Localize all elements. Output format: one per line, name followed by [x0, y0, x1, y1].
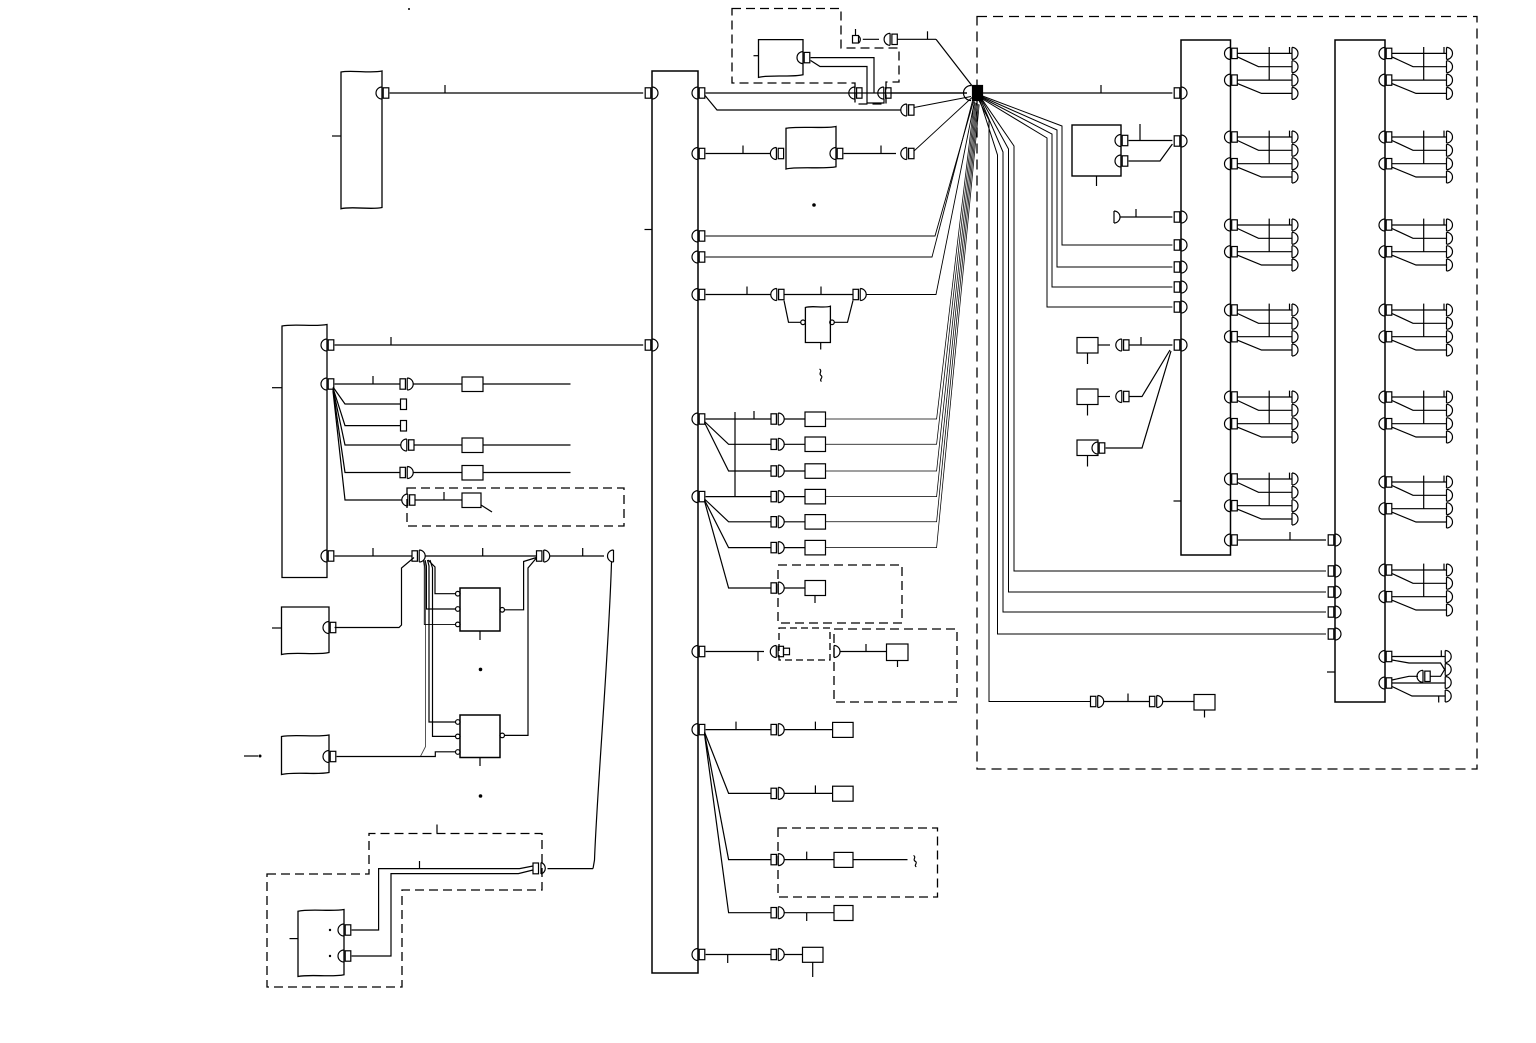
- connector on tall box right edge (bottom): [321, 550, 334, 562]
- inline pair: [771, 491, 784, 503]
- wire tick: [390, 337, 392, 345]
- fuse box: [805, 464, 826, 479]
- wire: [706, 294, 771, 296]
- long wire P2 down to M2 output: [505, 559, 537, 736]
- inline pair 2: [1150, 696, 1163, 708]
- connector into DB1 row 141: [1174, 135, 1187, 147]
- terminal 2: [1445, 664, 1451, 676]
- M1 bottom stub: [479, 631, 481, 640]
- branch row 859.6: [705, 733, 772, 860]
- dot below M2: [479, 794, 483, 798]
- wire to squiggle: [853, 859, 908, 861]
- stepped dashed enclosure: [267, 834, 542, 988]
- SB3 stub: [1087, 456, 1089, 467]
- connector bus right y=236: [692, 230, 705, 242]
- inline pair: [1116, 391, 1129, 403]
- branch row 521.8: [705, 499, 772, 522]
- connector into DB2 row 634: [1328, 628, 1341, 640]
- component stub: [897, 661, 899, 668]
- wire pair P1 down to M2 input2: [430, 560, 456, 736]
- lamp group DB2-5: [1379, 391, 1453, 443]
- connector bus right y=153.5: [692, 148, 705, 160]
- wire: [785, 954, 803, 956]
- fuse box: [805, 540, 826, 555]
- wire from B4 upper connector: [352, 866, 533, 930]
- connector into DB2 row 571: [1328, 565, 1341, 577]
- connector on B2 right edge: [323, 622, 336, 634]
- wire: [483, 444, 571, 446]
- M1 input pin 2: [456, 607, 461, 612]
- connector bus right y=294.5: [692, 289, 705, 301]
- connector on tall box right edge: [321, 378, 334, 390]
- wire lower connector to terminal 3: [1392, 682, 1445, 684]
- connector bus right y=496.6: [692, 491, 705, 503]
- wire pair P1 to M1 input3: [424, 561, 456, 625]
- wire tick: [735, 722, 737, 730]
- row 954 wire: [706, 954, 771, 956]
- wire pair P1 to M1 input2: [425, 560, 456, 609]
- connector on B3 right edge: [323, 751, 336, 763]
- wire tick: [444, 85, 446, 93]
- connector bus right y=419: [692, 413, 705, 425]
- inline pair: [1417, 670, 1430, 682]
- drop to hanging component left: [784, 301, 801, 323]
- wire DB1 to DB2: [1238, 539, 1326, 541]
- pair before component: [770, 148, 783, 160]
- fuse box: [805, 412, 826, 427]
- wire row 93 to junction: [706, 92, 967, 94]
- wire to pair: [863, 38, 879, 40]
- tick on its left edge: [332, 135, 341, 137]
- row 729 wire: [706, 729, 771, 731]
- component stub: [820, 343, 822, 350]
- tick on harness wire above dashed edge: [436, 825, 438, 834]
- junction fan: feeder to rect2 row 612: [981, 101, 1326, 613]
- wire tick: [727, 955, 729, 964]
- connector into DB1 row 217: [1174, 211, 1187, 223]
- inline pair: [1116, 339, 1129, 351]
- large dashed enclosure D10: [977, 17, 1477, 770]
- tall component box (wavy top): [282, 325, 327, 578]
- wire to junction bundle: [826, 104, 978, 497]
- M1 input pin 1: [456, 591, 461, 596]
- inline pair: [771, 907, 784, 919]
- inline pair: [771, 949, 784, 961]
- inline connector pair: [400, 378, 413, 390]
- terminal rect: [401, 421, 407, 432]
- connector on SB3 right edge: [1092, 442, 1105, 454]
- dashed enclosure D4: [778, 565, 902, 623]
- relay stub: [814, 596, 816, 604]
- wire tick: [880, 146, 882, 154]
- dot between modules: [479, 668, 483, 672]
- inline connector pair: [401, 439, 414, 451]
- terminal 1: [1445, 651, 1451, 663]
- wire: [414, 383, 463, 385]
- wire: [483, 383, 571, 385]
- wire pair to terminal 2 (crossing): [1430, 669, 1445, 677]
- inline pair: [771, 465, 784, 477]
- hanging component pin R: [830, 320, 835, 325]
- squiggle continuation mark: [820, 369, 822, 382]
- splice flare on wire from B3: [337, 752, 456, 757]
- wire slant up to DB1 connector: [1129, 350, 1170, 397]
- wire to junction bundle: [826, 102, 975, 419]
- dashed enclosure D3: [407, 488, 624, 526]
- SB2 stub: [1087, 405, 1089, 416]
- tick on B4 left edge: [290, 938, 299, 940]
- wire row110 slant to junction: [914, 97, 971, 108]
- tick left of B3 dot: [244, 755, 258, 757]
- fuse box: [805, 489, 826, 504]
- connector into DB2 row 540: [1328, 534, 1341, 546]
- relay module M2: [460, 715, 500, 758]
- lamp group DB1-5: [1225, 391, 1299, 443]
- branch row 793.4: [705, 732, 772, 793]
- inline pair: [771, 724, 784, 736]
- connector at bus left edge: [645, 339, 658, 351]
- wire: [785, 496, 806, 498]
- lamp group DB2-4: [1379, 304, 1453, 356]
- wire row 1: [335, 383, 400, 385]
- distribution block DB1: [1181, 40, 1231, 555]
- fuse box: [462, 466, 483, 481]
- small box SB3: [1077, 440, 1098, 456]
- wire row 236: [706, 101, 974, 236]
- dashed enclosure D6: [834, 629, 957, 702]
- connector bus right y=93: [692, 87, 705, 99]
- wire: [706, 651, 764, 653]
- relay module M1: [460, 588, 500, 631]
- M2 bottom stub: [479, 758, 481, 767]
- wire tick: [443, 492, 445, 500]
- DB2 left edge tick: [1327, 671, 1335, 673]
- drop to hanging component right: [834, 301, 853, 323]
- inline connector pair: [400, 467, 413, 479]
- wire: [785, 729, 833, 731]
- hanging component pin L: [801, 320, 806, 325]
- wire tick: [814, 785, 816, 793]
- inline pair row110: [901, 104, 914, 116]
- wire from lower connector slanting up: [1129, 144, 1173, 161]
- junction connector arc: [964, 86, 971, 101]
- connector on its right edge: [797, 52, 810, 64]
- wire to DB1 row 345: [1129, 344, 1172, 346]
- wire tick: [1139, 124, 1141, 140]
- component box B2 (wavy bottom): [282, 607, 330, 655]
- wire upper connector routed to terminal 2: [1392, 660, 1445, 671]
- wire: [550, 555, 604, 557]
- wire: [335, 555, 412, 557]
- lamp group DB1-6: [1225, 473, 1299, 525]
- wire: [415, 499, 462, 501]
- M1 output pin: [500, 608, 505, 613]
- wire branch 2: [333, 387, 401, 404]
- small connector stub: [855, 29, 857, 36]
- wire path A down to row 93 pair: [811, 58, 874, 93]
- wire tick: [372, 548, 374, 556]
- wire: [785, 547, 806, 549]
- connector into DB2 row 592: [1328, 586, 1341, 598]
- squiggle end mark: [914, 856, 917, 867]
- wire lower connector to terminal 4: [1392, 687, 1445, 697]
- inline pair: [853, 289, 866, 301]
- connector bus right y=257: [692, 251, 705, 263]
- M2 input pin 1: [456, 720, 461, 725]
- wire tick: [1127, 694, 1129, 702]
- inline pair row 39: [884, 33, 897, 45]
- junction fan: feeder to rect1 row 245: [983, 96, 1173, 245]
- wire from B4 lower connector: [352, 870, 533, 956]
- relay box in dashed enclosure: [462, 493, 481, 508]
- wire tick: [927, 31, 929, 39]
- terminal 3: [1445, 677, 1451, 689]
- component box: [803, 947, 824, 962]
- small connector top: [853, 36, 859, 44]
- connector on its right edge: [376, 87, 389, 99]
- lamp group DB2-1: [1379, 47, 1453, 99]
- stepped dashed enclosure D1/D2: [732, 9, 899, 105]
- inline pair: [771, 516, 784, 528]
- wire tick: [1140, 337, 1142, 345]
- wire: [426, 555, 537, 557]
- connector bus right y=954.5: [692, 949, 705, 961]
- wire tick: [482, 548, 484, 556]
- junction fan: feeder to rect1 row 287: [983, 98, 1173, 287]
- wire tick: [742, 146, 744, 154]
- junction connector body (filled): [973, 86, 983, 101]
- lamp group DB2-8 (special with inline connector): [1379, 650, 1451, 702]
- inline pair: [771, 854, 784, 866]
- bottom feeder row: inline pair 1: [1091, 696, 1104, 708]
- small box SB2: [1077, 389, 1098, 405]
- inline pair: [771, 438, 784, 450]
- wire tick: [753, 411, 755, 419]
- small box SB1: [1077, 338, 1098, 354]
- wire pair2 to junction: [891, 92, 967, 94]
- wire: [785, 912, 835, 914]
- wire pair P1 down to splice on B3 wire: [421, 561, 426, 756]
- inline connector pair: [402, 494, 415, 506]
- terminal 4: [1445, 690, 1451, 702]
- wire to terminal 1: [1392, 656, 1445, 658]
- wire: [785, 418, 806, 420]
- terminal half-disc: [608, 550, 614, 562]
- component box (wavy) top-left: [341, 71, 382, 209]
- fuse box: [462, 438, 483, 453]
- control unit stub: [1096, 176, 1098, 186]
- wire: [785, 792, 833, 794]
- fuse box: [805, 515, 826, 530]
- branch row 471: [705, 423, 772, 472]
- hanging component box (wavy top): [805, 306, 830, 342]
- wire slant to junction: [914, 98, 972, 152]
- wire: [844, 153, 896, 155]
- comb vertical: [734, 412, 736, 497]
- wire: [785, 470, 806, 472]
- wire path B step down: [811, 61, 884, 104]
- junction fan: feeder to rect2 row 571: [983, 100, 1327, 571]
- pair on row 93 (first): [849, 87, 862, 99]
- lamp group DB1-4: [1225, 304, 1299, 356]
- wire: [414, 444, 462, 446]
- wire: [785, 521, 806, 523]
- wire tick: [820, 287, 822, 295]
- lamp group DB2-6: [1379, 476, 1453, 528]
- dashed enclosure D7: [778, 828, 938, 897]
- wire tick: [372, 376, 374, 384]
- branch row 444: [705, 422, 772, 445]
- component stub: [812, 962, 814, 977]
- wire slant down to junction: [936, 39, 973, 87]
- tick above terminal 1: [1440, 650, 1442, 656]
- end box: [1194, 695, 1215, 711]
- M2 input pin 2: [456, 734, 461, 739]
- M1 input pin 3: [456, 622, 461, 627]
- connector into DB1 row 345: [1174, 339, 1187, 351]
- pair at harness exit: [533, 863, 539, 874]
- wire slant up to DB1 connector: [1106, 351, 1171, 448]
- branch wire row 110: [705, 96, 901, 111]
- DB2 (right distribution block): [1335, 40, 1385, 702]
- M2 input pin 3: [456, 750, 461, 755]
- dot inside B4 upper: [329, 929, 331, 931]
- terminal rect: [401, 399, 407, 410]
- wire: [414, 472, 463, 474]
- wire tick: [865, 644, 867, 652]
- dot mid column: [812, 203, 816, 207]
- inline pair: [771, 787, 784, 799]
- wire SB1 to pair: [1098, 344, 1110, 346]
- terminal half-disc row 217: [1114, 211, 1120, 223]
- wire tick: [757, 652, 759, 662]
- wire: [706, 153, 770, 155]
- small dashed enclosure D5: [779, 628, 830, 660]
- DB1 left edge tick: [1174, 500, 1182, 502]
- component box: [833, 722, 854, 737]
- connector into DB1 row 307: [1174, 301, 1187, 313]
- connector into DB1 row 267: [1174, 261, 1187, 273]
- wire SB2 to pair: [1098, 396, 1110, 398]
- wire branch 6: [333, 391, 402, 500]
- wire tick: [419, 861, 421, 869]
- wire to bus: [390, 92, 644, 94]
- wire tick: [806, 913, 808, 921]
- component box in D6: [887, 644, 909, 661]
- connector row y=345: [321, 339, 334, 351]
- connector bus right y=651.5: [692, 646, 705, 658]
- inline pair: [771, 582, 784, 594]
- control unit box right of junction: [1072, 125, 1121, 176]
- connector at bus left edge: [645, 87, 658, 99]
- main harness bus: [652, 71, 698, 973]
- connector into DB2 row 612: [1328, 606, 1341, 618]
- wire tick: [814, 722, 816, 730]
- connector bus right y=729.6: [692, 724, 705, 736]
- SB1 stub: [1087, 353, 1089, 364]
- lamp group DB2-2: [1379, 131, 1453, 183]
- special connector pair: [770, 646, 783, 658]
- junction wire to rect1 row 93: [983, 92, 1173, 94]
- pair arc: [541, 863, 545, 875]
- pair on row 93 (second): [878, 87, 891, 99]
- terminal half-disc on D6 edge: [834, 646, 840, 658]
- wire row 39: [897, 38, 936, 40]
- inline pair: [901, 148, 914, 160]
- junction fan: feeder to rect1 row 267: [983, 97, 1173, 267]
- connector on DB2 right edge (upper): [1379, 651, 1392, 663]
- wire branch 5: [333, 390, 400, 473]
- row 496 wire: [706, 496, 771, 498]
- tick on its left edge: [754, 55, 759, 57]
- lamp group DB2-3: [1379, 219, 1453, 271]
- lead from relay box: [481, 505, 492, 512]
- connector on its right edge: [830, 148, 843, 160]
- wire row 257: [706, 101, 973, 257]
- wire: [1163, 701, 1194, 703]
- wire: [1104, 701, 1150, 703]
- inline connector pair P2: [537, 550, 550, 562]
- loop wire from small box B2 up to pair P1: [335, 558, 414, 628]
- wire to junction bundle: [826, 103, 977, 471]
- wire to bus: [335, 344, 644, 346]
- bus left-edge nub: [645, 229, 653, 231]
- connector on DB1 right edge row 540: [1225, 534, 1238, 546]
- wire to DB1 row 217: [1120, 216, 1172, 218]
- M1 output wire up to pair P2: [505, 558, 537, 610]
- connector into DB1 row 245: [1174, 239, 1187, 251]
- wire to junction bundle: [826, 104, 979, 522]
- connector on control unit right edge (top): [1115, 135, 1128, 147]
- wire pair P1 down to M2 input1: [428, 560, 456, 722]
- lamp group DB2-7: [1379, 564, 1453, 616]
- junction fan: feeder to rect2 row 592: [982, 101, 1326, 593]
- component box B4 (wavy): [298, 910, 344, 977]
- wire to junction bundle: [826, 105, 980, 548]
- wire to junction bundle: [826, 103, 976, 445]
- connector on DB2 right edge (lower): [1379, 677, 1392, 689]
- end box stub: [1204, 710, 1206, 718]
- component box B3 (wavy): [282, 735, 330, 775]
- wire: [784, 294, 853, 296]
- junction fan: feeder to rect1 row 307: [983, 99, 1173, 307]
- wire tick: [1135, 209, 1137, 217]
- branch row 547.6: [705, 500, 772, 548]
- wire: [785, 443, 806, 445]
- connector into DB1 row 93: [1174, 87, 1187, 99]
- wire tick: [806, 852, 808, 860]
- inline connector pair P1: [412, 550, 425, 562]
- M2 output pin: [500, 733, 505, 738]
- junction fan: vertical feeder to bottom row: [979, 101, 1090, 702]
- wire branch 3: [333, 388, 401, 426]
- component box: [834, 852, 853, 867]
- fuse box: [805, 437, 826, 452]
- long drop wire to bottom-left harness: [593, 562, 612, 869]
- wire: [785, 859, 835, 861]
- connector into DB1 row 287: [1174, 281, 1187, 293]
- component box (wavy bottom) in D1: [759, 40, 804, 78]
- component box (wavy) on row 153: [786, 127, 836, 170]
- wire tick: [582, 548, 584, 556]
- component box: [833, 786, 854, 801]
- wire pair P1 to M1 input1: [428, 560, 456, 594]
- wire from pair to drop wire: [548, 868, 594, 870]
- component box: [834, 906, 853, 921]
- tick on its left edge: [272, 387, 282, 389]
- wire to junction: [867, 102, 975, 295]
- fuse box: [462, 377, 483, 392]
